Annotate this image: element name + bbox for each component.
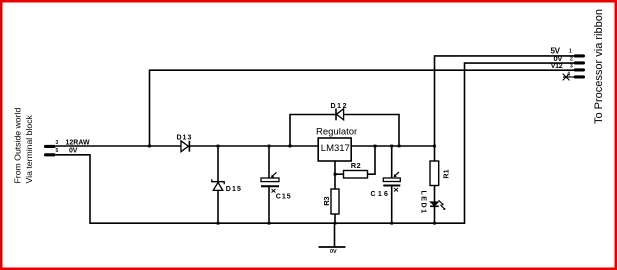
svg-text:LED1: LED1 bbox=[420, 191, 429, 215]
capacitor C15 (electrolytic) bbox=[261, 172, 279, 192]
resistor R2 bbox=[344, 171, 368, 179]
wire LM317 adjust pin down bbox=[334, 161, 336, 189]
svg-text:C15: C15 bbox=[276, 194, 292, 201]
no-connect X marker with stub bbox=[563, 76, 574, 78]
wire V12 riser bbox=[150, 70, 575, 146]
wire D15 anode to 0V rail bbox=[217, 190, 219, 223]
wire 5V riser and 5V line to terminal bbox=[435, 56, 575, 161]
wire C16 bottom to 0V rail bbox=[391, 186, 393, 223]
svg-text:D13: D13 bbox=[177, 134, 193, 141]
wire 0V from terminal down and along bottom rail bbox=[56, 63, 574, 223]
wire LED1 cathode to 0V rail bbox=[434, 207, 436, 224]
svg-text:C16: C16 bbox=[371, 191, 391, 198]
wire C16 branch top bbox=[391, 146, 393, 178]
diode D12 (points left) bbox=[336, 109, 344, 121]
terminal J2 pin 4 (right, unused) bbox=[574, 75, 585, 78]
wire D15 branch top bbox=[217, 146, 219, 182]
wire ground stub bbox=[334, 223, 336, 247]
resistor R3 bbox=[331, 189, 339, 214]
svg-text:D12: D12 bbox=[331, 103, 349, 110]
svg-text:0V: 0V bbox=[69, 148, 78, 155]
regulator U1 LM317 box bbox=[318, 138, 351, 161]
capacitor C16 (electrolytic) bbox=[383, 172, 400, 192]
svg-text:0V: 0V bbox=[554, 54, 563, 63]
svg-text:R2: R2 bbox=[351, 161, 361, 170]
svg-text:0V: 0V bbox=[330, 249, 337, 255]
terminal J2 pin 1 (right, 5V) bbox=[574, 54, 585, 57]
terminal J2 pin 3 (right, V12) bbox=[574, 68, 585, 71]
svg-text:1: 1 bbox=[569, 49, 572, 55]
wire R2 to output riser bbox=[368, 146, 376, 174]
wire D13 cathode to LM317 input bbox=[190, 145, 318, 147]
wire LM317 output to 5V riser bbox=[351, 145, 434, 147]
junction dots bbox=[148, 145, 436, 225]
svg-text:D15: D15 bbox=[226, 186, 242, 193]
wire C15 branch top bbox=[268, 146, 270, 178]
ground symbol bbox=[319, 246, 346, 248]
svg-text:Via terminal block: Via terminal block bbox=[24, 114, 34, 183]
resistor R1 bbox=[430, 161, 439, 186]
diode D13 bbox=[181, 141, 189, 152]
wire R1 to LED1 bbox=[434, 186, 436, 203]
zener diode D15 bbox=[212, 179, 224, 190]
svg-text:R3: R3 bbox=[322, 197, 331, 206]
wire D12 loop left leg bbox=[290, 115, 336, 147]
LED LED1 bbox=[430, 200, 445, 210]
terminal J1 pin 5 (left, 0V) bbox=[44, 153, 56, 156]
svg-text:From Outside world: From Outside world bbox=[13, 108, 23, 184]
wire C15 bottom to 0V rail bbox=[268, 187, 270, 223]
wire 12RAW from terminal to D13 anode bbox=[56, 145, 181, 147]
wire adjust to R2 bbox=[335, 173, 344, 175]
svg-text:5: 5 bbox=[56, 148, 59, 154]
wire R3 bottom to 0V rail bbox=[334, 214, 336, 223]
svg-text:2: 2 bbox=[570, 57, 573, 63]
svg-text:R1: R1 bbox=[441, 169, 450, 178]
svg-text:To Processor via ribbon: To Processor via ribbon bbox=[593, 9, 605, 124]
svg-text:V12: V12 bbox=[551, 63, 563, 70]
svg-text:3: 3 bbox=[570, 64, 573, 70]
terminal J2 pin 2 (right, 0V) bbox=[574, 61, 585, 64]
svg-text:3: 3 bbox=[56, 140, 59, 146]
wire D12 loop right leg bbox=[344, 115, 399, 147]
svg-text:LM317: LM317 bbox=[321, 143, 350, 154]
terminal J1 pin 3 (left, 12RAW) bbox=[44, 145, 56, 148]
svg-text:Regulator: Regulator bbox=[316, 127, 357, 138]
